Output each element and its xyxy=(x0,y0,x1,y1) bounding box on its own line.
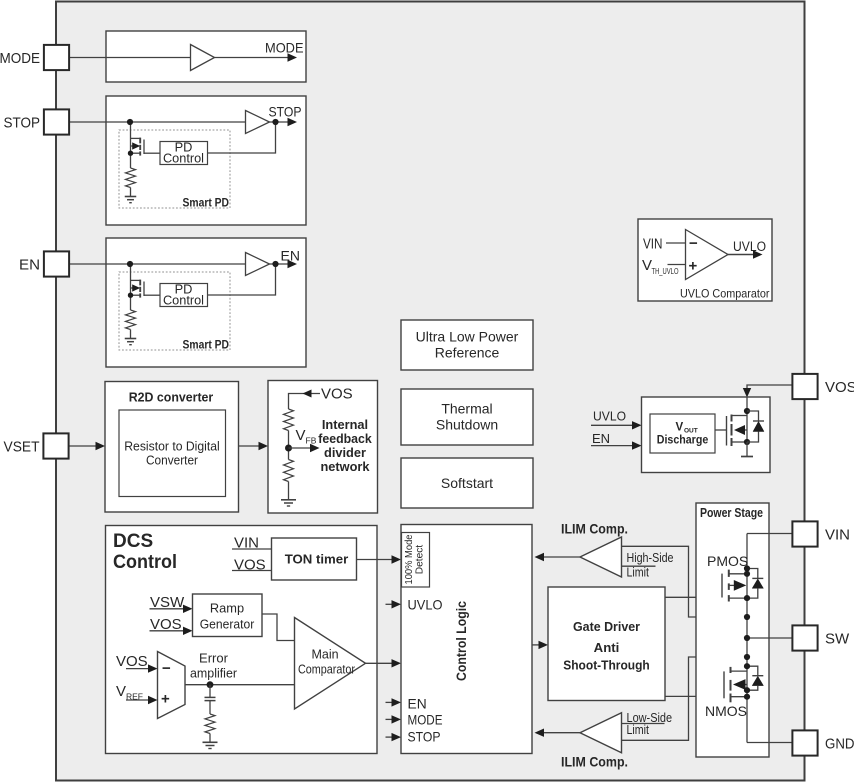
svg-text:OUT: OUT xyxy=(684,428,698,435)
svg-text:Control: Control xyxy=(163,151,204,166)
svg-text:STOP: STOP xyxy=(269,104,302,120)
svg-text:Gate Driver: Gate Driver xyxy=(573,619,640,634)
svg-text:Internal: Internal xyxy=(322,417,368,432)
svg-text:Error: Error xyxy=(199,651,229,666)
svg-text:V: V xyxy=(116,683,126,700)
svg-text:feedback: feedback xyxy=(318,431,372,446)
svg-text:divider: divider xyxy=(324,445,366,460)
svg-text:GND: GND xyxy=(825,736,854,753)
svg-text:ILIM Comp.: ILIM Comp. xyxy=(561,522,628,537)
svg-text:−: − xyxy=(689,235,698,252)
svg-text:SW: SW xyxy=(825,631,850,648)
svg-text:MODE: MODE xyxy=(265,40,304,56)
svg-text:Resistor to Digital: Resistor to Digital xyxy=(124,439,220,454)
svg-text:Main: Main xyxy=(311,648,338,662)
svg-text:Control: Control xyxy=(113,552,177,573)
svg-text:VOS: VOS xyxy=(116,653,148,670)
svg-text:EN: EN xyxy=(408,697,427,712)
svg-text:DCS: DCS xyxy=(113,531,153,552)
svg-text:EN: EN xyxy=(19,257,40,274)
svg-text:VIN: VIN xyxy=(825,527,850,544)
svg-text:network: network xyxy=(320,459,370,474)
svg-text:Control Logic: Control Logic xyxy=(454,601,469,681)
svg-text:UVLO: UVLO xyxy=(408,598,443,613)
svg-text:Comparator: Comparator xyxy=(298,663,355,677)
svg-text:R2D converter: R2D converter xyxy=(129,390,214,405)
svg-text:NMOS: NMOS xyxy=(705,703,747,719)
svg-text:Converter: Converter xyxy=(146,453,199,468)
svg-text:+: + xyxy=(689,258,698,275)
svg-text:100% Mode: 100% Mode xyxy=(404,534,415,584)
svg-text:Limit: Limit xyxy=(627,566,650,580)
svg-text:MODE: MODE xyxy=(408,713,443,728)
svg-text:Anti: Anti xyxy=(594,640,620,655)
svg-text:Smart PD: Smart PD xyxy=(183,196,230,210)
svg-text:Limit: Limit xyxy=(627,723,650,737)
svg-text:Ultra Low Power: Ultra Low Power xyxy=(416,329,519,345)
svg-text:UVLO Comparator: UVLO Comparator xyxy=(680,287,770,301)
svg-text:VIN: VIN xyxy=(643,237,663,253)
svg-text:TH_UVLO: TH_UVLO xyxy=(652,267,679,276)
svg-text:TON timer: TON timer xyxy=(285,552,349,567)
svg-text:amplifier: amplifier xyxy=(190,666,238,681)
svg-text:Softstart: Softstart xyxy=(441,475,493,491)
svg-text:V: V xyxy=(296,427,306,444)
svg-text:Smart PD: Smart PD xyxy=(183,338,230,352)
svg-text:V: V xyxy=(642,257,652,274)
svg-text:FB: FB xyxy=(306,436,317,446)
svg-text:STOP: STOP xyxy=(408,730,441,745)
svg-text:VSET: VSET xyxy=(4,439,40,456)
svg-text:Detect: Detect xyxy=(415,545,426,575)
svg-text:STOP: STOP xyxy=(4,115,41,132)
svg-text:UVLO: UVLO xyxy=(593,409,626,424)
svg-text:VOS: VOS xyxy=(825,379,854,396)
svg-text:High-Side: High-Side xyxy=(627,551,674,565)
svg-text:+: + xyxy=(161,691,170,708)
svg-text:UVLO: UVLO xyxy=(733,239,766,254)
svg-text:Thermal: Thermal xyxy=(441,401,492,417)
svg-text:VOS: VOS xyxy=(321,386,353,403)
svg-text:V: V xyxy=(676,422,684,434)
svg-text:MODE: MODE xyxy=(0,50,40,67)
svg-text:Control: Control xyxy=(163,293,204,308)
svg-text:Ramp: Ramp xyxy=(210,601,244,616)
svg-text:ILIM Comp.: ILIM Comp. xyxy=(561,755,628,770)
svg-text:Generator: Generator xyxy=(200,617,255,632)
svg-text:Reference: Reference xyxy=(435,345,500,361)
svg-text:−: − xyxy=(162,660,171,677)
svg-text:Shutdown: Shutdown xyxy=(436,417,498,433)
svg-text:Discharge: Discharge xyxy=(657,435,709,447)
svg-text:Power Stage: Power Stage xyxy=(700,506,763,520)
svg-text:EN: EN xyxy=(281,248,300,264)
svg-text:PMOS: PMOS xyxy=(707,553,748,569)
svg-text:Shoot-Through: Shoot-Through xyxy=(563,658,650,673)
svg-text:EN: EN xyxy=(592,431,610,446)
